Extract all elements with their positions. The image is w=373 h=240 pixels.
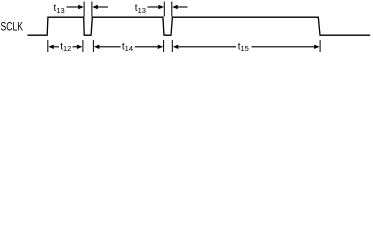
node tick bottom fall1 (82, 40, 84, 52)
label t14 with arrows (94, 45, 100, 49)
wire t13 second left-pointing arrow (178, 6, 188, 8)
wire t13 first left-pointing arrow (98, 6, 109, 8)
node tick top notch2 right (171, 2, 173, 17)
node tick top notch2 left (163, 2, 165, 17)
node tick bottom rise3 (171, 40, 173, 52)
node tick bottom fall3 (319, 40, 321, 52)
wire SCLK waveform (28, 17, 371, 35)
label t15 with arrows (173, 45, 179, 49)
wire t13 second right-pointing arrow (148, 6, 160, 8)
svg-text:SCLK: SCLK (1, 21, 24, 33)
svg-text:t15: t15 (238, 41, 249, 53)
svg-text:t14: t14 (122, 41, 133, 53)
svg-text:t12: t12 (60, 41, 71, 53)
node tick bottom fall2 (163, 40, 165, 52)
wire t13 first right-pointing arrow (67, 6, 80, 8)
node tick top notch1 left (83, 2, 85, 17)
node tick bottom rise2 (92, 40, 94, 52)
svg-text:t13: t13 (54, 3, 65, 15)
label t12 with arrows (48, 45, 54, 49)
node tick top notch1 right (91, 2, 93, 17)
node tick bottom rise1 (47, 40, 49, 52)
svg-text:t13: t13 (135, 3, 146, 15)
